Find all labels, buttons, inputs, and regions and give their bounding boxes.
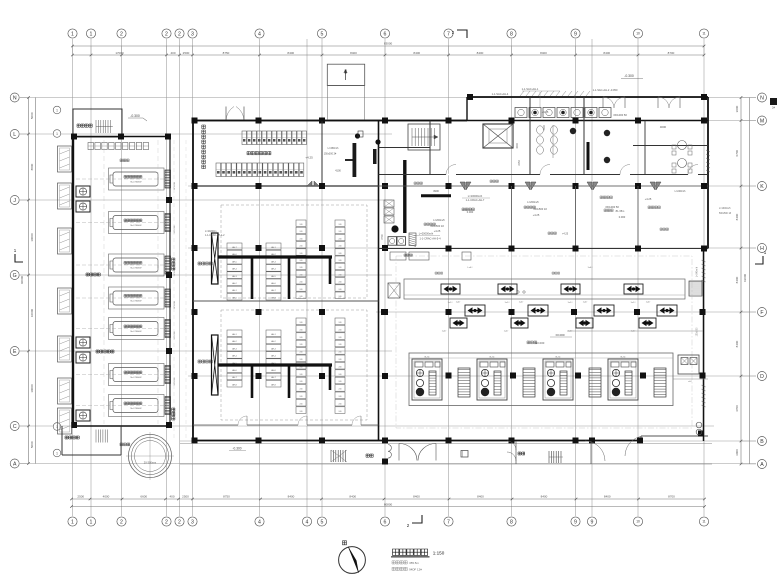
svg-text:6600: 6600	[140, 494, 147, 498]
svg-text:N: N	[13, 95, 17, 101]
svg-text:240: 240	[300, 260, 303, 262]
svg-text:+4.25: +4.25	[562, 233, 569, 236]
svg-text:6: 6	[384, 519, 387, 525]
svg-text:2500: 2500	[183, 51, 190, 55]
svg-text:1=1#: 1=1#	[568, 302, 574, 304]
svg-text:2500: 2500	[77, 494, 84, 498]
svg-text:2250: 2250	[518, 160, 521, 166]
svg-text:8400: 8400	[735, 340, 739, 347]
svg-text:1: 1	[56, 132, 58, 136]
svg-text:-0.300: -0.300	[130, 114, 140, 118]
svg-text:AH-1: AH-1	[232, 289, 236, 292]
svg-text:4: 4	[258, 31, 261, 37]
svg-text:2: 2	[178, 31, 181, 37]
svg-text:240: 240	[300, 359, 303, 361]
svg-text:240: 240	[339, 282, 342, 284]
svg-text:3900: 3900	[433, 189, 439, 193]
svg-text:AH-6: AH-6	[271, 282, 275, 285]
svg-text:N=1750kW: N=1750kW	[131, 377, 143, 379]
svg-text:9: 9	[574, 31, 577, 37]
svg-text:0.000: 0.000	[619, 215, 626, 219]
svg-text:AH-5: AH-5	[232, 260, 236, 263]
svg-text:150x300 5#: 150x300 5#	[613, 113, 627, 117]
svg-text:8400: 8400	[413, 494, 420, 498]
svg-text:-0.300: -0.300	[232, 447, 241, 451]
svg-text:+4.25: +4.25	[533, 213, 540, 217]
svg-text:1500: 1500	[543, 125, 546, 131]
svg-text:L=200m/h: L=200m/h	[433, 218, 445, 222]
svg-text:10000: 10000	[30, 233, 34, 242]
svg-text:E: E	[13, 349, 17, 355]
svg-text:2: 2	[452, 30, 455, 35]
svg-text:83000: 83000	[384, 42, 393, 46]
svg-text:240: 240	[339, 246, 342, 248]
svg-text:9: 9	[574, 519, 577, 525]
svg-text:8400: 8400	[349, 494, 356, 498]
svg-text:4700: 4700	[735, 405, 739, 412]
svg-text:+4.25: +4.25	[542, 110, 549, 114]
svg-text:1=4#: 1=4#	[588, 267, 594, 269]
svg-text:240: 240	[339, 289, 342, 291]
svg-text:150x300 5#: 150x300 5#	[605, 205, 619, 209]
svg-text:8: 8	[510, 519, 513, 525]
svg-text:240: 240	[339, 267, 342, 269]
svg-text:240: 240	[339, 224, 342, 226]
svg-text:1=1#: 1=1#	[631, 302, 637, 304]
svg-text:+4.25: +4.25	[305, 156, 313, 160]
svg-text:1=4#: 1=4#	[646, 302, 651, 304]
svg-text:240: 240	[300, 403, 303, 405]
svg-text:N=1750kW: N=1750kW	[131, 331, 143, 333]
svg-text:L=4#: L=4#	[468, 267, 474, 269]
svg-text:240: 240	[300, 411, 303, 413]
svg-text:6700: 6700	[735, 150, 739, 157]
svg-text:AH-8: AH-8	[271, 383, 275, 386]
svg-text:240: 240	[339, 296, 342, 298]
svg-text:11: 11	[702, 520, 706, 524]
svg-text:L: L	[13, 132, 16, 138]
svg-text:-0.300: -0.300	[624, 74, 634, 78]
svg-text:L=10000m/h: L=10000m/h	[468, 194, 483, 198]
svg-text:240: 240	[300, 238, 303, 240]
svg-text:240: 240	[300, 329, 303, 331]
svg-text:240: 240	[339, 231, 342, 233]
svg-text:2: 2	[178, 519, 181, 525]
svg-text:400: 400	[170, 51, 175, 55]
svg-text:: 355.5m: : 355.5m	[408, 561, 420, 565]
svg-text:AH-4: AH-4	[271, 355, 275, 358]
svg-text:240: 240	[300, 344, 303, 346]
svg-text:240: 240	[300, 289, 303, 291]
svg-text:1: 1	[56, 108, 58, 112]
svg-text:240: 240	[339, 359, 342, 361]
svg-text:1: 1	[56, 451, 58, 455]
svg-text:1=1#: 1=1#	[448, 302, 454, 304]
svg-text:20-300mm: 20-300mm	[144, 461, 156, 465]
svg-text:AH-2: AH-2	[271, 340, 275, 343]
svg-text:8700: 8700	[668, 51, 675, 55]
svg-text:240: 240	[339, 274, 342, 276]
svg-text:10: 10	[636, 32, 640, 36]
svg-text:240: 240	[339, 352, 342, 354]
svg-text:AH-1: AH-1	[271, 333, 275, 336]
svg-text:240: 240	[339, 329, 342, 331]
svg-text:AH-5: AH-5	[271, 275, 275, 278]
svg-text:240: 240	[300, 337, 303, 339]
svg-text:10: 10	[636, 520, 640, 524]
svg-text:1=4#: 1=4#	[442, 331, 447, 333]
svg-text:8750: 8750	[223, 51, 230, 55]
svg-text:8400: 8400	[604, 494, 611, 498]
svg-text:2: 2	[165, 519, 168, 525]
svg-text:N: N	[760, 95, 764, 101]
svg-text:4100: 4100	[335, 169, 341, 173]
svg-text:10000: 10000	[30, 384, 34, 393]
svg-text:F: F	[760, 310, 763, 316]
svg-text:2: 2	[120, 519, 123, 525]
svg-text:AH-7: AH-7	[271, 376, 275, 379]
svg-text:AH-7: AH-7	[232, 376, 236, 379]
svg-text:C: C	[13, 424, 17, 430]
svg-text:AH-7: AH-7	[271, 289, 275, 292]
svg-text:240: 240	[339, 396, 342, 398]
svg-text:8750: 8750	[223, 494, 230, 498]
svg-text:AH-3: AH-3	[271, 260, 275, 263]
svg-text:N=1750kW: N=1750kW	[131, 268, 143, 270]
svg-text:G: G	[13, 273, 17, 279]
svg-text:5000: 5000	[30, 112, 34, 119]
svg-text:6: 6	[384, 31, 387, 37]
svg-text:8700: 8700	[668, 494, 675, 498]
svg-text:1-1-CRAC-AH-7: 1-1-CRAC-AH-7	[466, 198, 485, 202]
svg-text:1-1-SAC-AH-1: 1-1-SAC-AH-1	[522, 87, 539, 91]
svg-text:J: J	[13, 198, 16, 204]
svg-text:8400: 8400	[350, 51, 357, 55]
svg-text:7: 7	[447, 31, 450, 37]
svg-text:2: 2	[120, 31, 123, 37]
svg-text:3000: 3000	[516, 143, 519, 149]
svg-text:N=1750kW: N=1750kW	[131, 301, 143, 303]
svg-text:AH-4: AH-4	[271, 268, 275, 271]
svg-text:K: K	[760, 184, 764, 190]
svg-text:AH-8: AH-8	[232, 383, 236, 386]
svg-text:N=1750kW: N=1750kW	[131, 225, 143, 227]
svg-text:AH-1: AH-1	[232, 333, 236, 336]
svg-text:: 94DF 12#: : 94DF 12#	[408, 567, 423, 571]
svg-text:240: 240	[339, 344, 342, 346]
svg-text:M: M	[760, 118, 764, 124]
svg-text:240: 240	[300, 322, 303, 324]
svg-text:80800: 80800	[384, 502, 393, 506]
svg-text:L=450m/h: L=450m/h	[328, 147, 339, 150]
svg-text:N=1750kW: N=1750kW	[131, 182, 143, 184]
svg-text:2#: 2#	[772, 106, 775, 110]
svg-text:4000: 4000	[103, 494, 110, 498]
svg-text:150x500: 150x500	[697, 327, 699, 337]
svg-text:8: 8	[510, 31, 513, 37]
svg-text:240: 240	[339, 389, 342, 391]
svg-text:AH-3: AH-3	[271, 347, 275, 350]
svg-text:9: 9	[591, 519, 594, 525]
svg-text:81.35m: 81.35m	[616, 209, 625, 213]
svg-text:240: 240	[339, 403, 342, 405]
svg-text:A: A	[13, 461, 17, 467]
svg-text:40000: 40000	[20, 275, 24, 284]
svg-text:1: 1	[90, 519, 93, 525]
svg-text:240: 240	[300, 381, 303, 383]
svg-text:240: 240	[300, 267, 303, 269]
svg-text:L=200m/h: L=200m/h	[527, 200, 539, 204]
svg-text:150x300 2#: 150x300 2#	[324, 153, 337, 156]
svg-text:AH-4: AH-4	[232, 355, 236, 358]
svg-text:500x500 1#: 500x500 1#	[719, 213, 732, 215]
svg-text:L=240m/h: L=240m/h	[697, 266, 699, 277]
svg-text:1-1-CRAC-AH-1-2: 1-1-CRAC-AH-1-2	[205, 234, 225, 237]
svg-text:4600: 4600	[660, 125, 667, 129]
svg-text:D: D	[760, 374, 764, 380]
svg-text:8400: 8400	[603, 51, 610, 55]
svg-text:N=1750kW: N=1750kW	[131, 408, 143, 410]
svg-text:L=1300m/h: L=1300m/h	[719, 208, 731, 210]
svg-text:150x500 1#: 150x500 1#	[533, 207, 547, 211]
svg-text:+4.25: +4.25	[434, 229, 441, 233]
svg-text:AH-6: AH-6	[232, 369, 236, 372]
svg-text:N-#4: N-#4	[556, 357, 562, 359]
svg-text:240: 240	[339, 322, 342, 324]
svg-text:240: 240	[300, 389, 303, 391]
svg-text:L=240m/h: L=240m/h	[675, 190, 686, 193]
svg-text:400: 400	[169, 494, 174, 498]
svg-text:1: 1	[71, 519, 74, 525]
svg-text:240: 240	[300, 246, 303, 248]
svg-text:1=4#: 1=4#	[504, 331, 509, 333]
svg-text:240: 240	[339, 253, 342, 255]
svg-text:3000: 3000	[735, 105, 739, 112]
svg-text:1: 1	[71, 31, 74, 37]
svg-text:1=4#: 1=4#	[456, 302, 461, 304]
svg-text:17000: 17000	[115, 51, 124, 55]
svg-text:1=4#: 1=4#	[583, 302, 588, 304]
svg-text:±0.000: ±0.000	[555, 333, 564, 337]
svg-text:240: 240	[300, 231, 303, 233]
svg-text:1=4#: 1=4#	[519, 302, 524, 304]
svg-text:A: A	[760, 462, 764, 468]
svg-text:3700: 3700	[381, 234, 384, 240]
svg-text:5: 5	[321, 519, 324, 525]
svg-text:11: 11	[702, 32, 706, 36]
svg-text:N-#4: N-#4	[425, 357, 431, 359]
svg-text:AH-2: AH-2	[232, 282, 236, 285]
svg-text:AH-7: AH-7	[232, 246, 236, 249]
svg-text:L=20000m/h: L=20000m/h	[419, 232, 434, 236]
svg-text:240: 240	[300, 224, 303, 226]
svg-text:240: 240	[300, 253, 303, 255]
svg-text:N-#4: N-#4	[490, 357, 496, 359]
svg-text:AH-4: AH-4	[232, 268, 236, 271]
svg-text:240: 240	[300, 352, 303, 354]
svg-text:2: 2	[165, 31, 168, 37]
svg-text:AH-1: AH-1	[271, 246, 275, 249]
svg-text:1=1#: 1=1#	[505, 302, 511, 304]
svg-text:1-1-SAC-AH-2 -0.050: 1-1-SAC-AH-2 -0.050	[593, 88, 618, 92]
svg-text:1-1-CRAC-AH-5-4: 1-1-CRAC-AH-5-4	[419, 237, 441, 241]
svg-text:3: 3	[191, 31, 194, 37]
svg-text:240: 240	[339, 374, 342, 376]
svg-text:8800: 8800	[30, 163, 34, 170]
svg-text:N-#4: N-#4	[621, 357, 627, 359]
svg-text:8400: 8400	[287, 51, 294, 55]
svg-text:1:150: 1:150	[433, 551, 445, 556]
svg-text:8400: 8400	[288, 494, 295, 498]
svg-text:4: 4	[306, 519, 309, 525]
svg-text:240: 240	[300, 296, 303, 298]
svg-text:+0.000: +0.000	[536, 341, 545, 345]
svg-text:10000: 10000	[30, 308, 34, 317]
svg-text:2500: 2500	[182, 494, 189, 498]
svg-text:8400: 8400	[477, 51, 484, 55]
svg-text:B: B	[760, 439, 764, 445]
svg-text:240: 240	[300, 366, 303, 368]
svg-text:240: 240	[339, 260, 342, 262]
svg-text:8400: 8400	[541, 494, 548, 498]
svg-text:240: 240	[300, 274, 303, 276]
svg-text:8400: 8400	[413, 51, 420, 55]
svg-text:8400: 8400	[735, 213, 739, 220]
svg-text:3: 3	[191, 519, 194, 525]
svg-text:240: 240	[339, 366, 342, 368]
svg-text:240: 240	[339, 411, 342, 413]
svg-text:7: 7	[447, 519, 450, 525]
svg-text:AH-1: AH-1	[232, 296, 236, 299]
svg-text:AH-2: AH-2	[232, 340, 236, 343]
svg-text:8400: 8400	[735, 276, 739, 283]
svg-text:240: 240	[339, 337, 342, 339]
svg-text:240: 240	[300, 282, 303, 284]
svg-text:AH-3: AH-3	[232, 347, 236, 350]
svg-text:4: 4	[258, 519, 261, 525]
svg-text:AH-6: AH-6	[271, 369, 275, 372]
svg-text:L=10200m: L=10200m	[205, 230, 216, 233]
svg-text:+4.25: +4.25	[645, 197, 652, 201]
svg-text:AH-8: AH-8	[271, 296, 275, 299]
svg-text:AH-3: AH-3	[232, 275, 236, 278]
svg-text:1-1-SAC-AH-4: 1-1-SAC-AH-4	[492, 92, 509, 96]
svg-text:1: 1	[764, 250, 767, 255]
svg-text:1: 1	[90, 31, 93, 37]
svg-text:8400: 8400	[477, 494, 484, 498]
svg-text:8400: 8400	[540, 51, 547, 55]
svg-text:5: 5	[321, 31, 324, 37]
svg-text:240: 240	[339, 238, 342, 240]
svg-text:1: 1	[14, 248, 17, 253]
svg-text:240: 240	[300, 396, 303, 398]
svg-text:3000: 3000	[735, 449, 739, 456]
svg-text:240: 240	[339, 381, 342, 383]
svg-text:43000: 43000	[743, 273, 747, 282]
svg-text:5000: 5000	[30, 441, 34, 448]
svg-text:2: 2	[407, 523, 410, 528]
svg-text:240: 240	[300, 374, 303, 376]
